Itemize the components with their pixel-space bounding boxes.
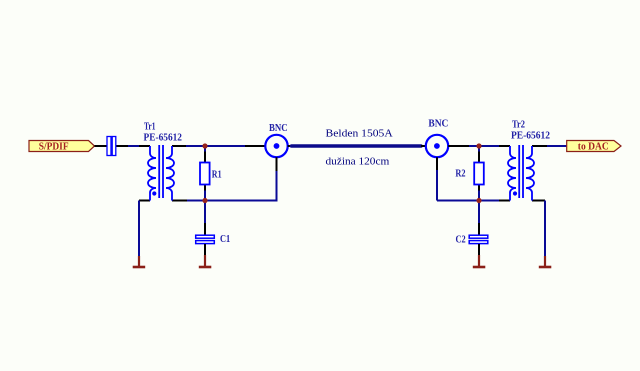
capacitor C2 pin top <box>478 223 480 235</box>
wire top rail left <box>186 145 245 147</box>
wire Tr2 to port <box>547 145 567 147</box>
resistor R2 <box>474 163 484 185</box>
cable Belden 1505A <box>292 144 422 148</box>
BNC connector left <box>265 135 287 157</box>
node junction left bottom <box>202 198 207 203</box>
wire C1 top <box>204 201 206 224</box>
wire BNC right down <box>436 170 438 201</box>
BNC right right pin <box>448 145 469 147</box>
ground <box>473 255 486 267</box>
svg-text:C1: C1 <box>220 233 230 245</box>
ground <box>199 255 212 267</box>
svg-text:PE-65612: PE-65612 <box>511 130 550 142</box>
node junction right bottom <box>476 198 481 203</box>
node junction right top <box>476 143 481 148</box>
BNC connector right left pin <box>421 145 426 147</box>
resistor R2 pin bottom <box>478 185 480 191</box>
transformer Tr1 pin top-right <box>172 145 186 147</box>
transformer Tr2 pin bottom-left <box>499 200 510 202</box>
svg-text:Belden 1505A: Belden 1505A <box>326 127 393 139</box>
svg-text:S/PDIF: S/PDIF <box>39 142 69 153</box>
node junction left top <box>202 143 207 148</box>
transformer Tr1 pin bottom-left <box>139 200 150 202</box>
wire C2 top <box>478 201 480 224</box>
wire R2 top stub <box>478 146 480 152</box>
capacitor C1 pin bottom <box>204 244 206 256</box>
svg-text:BNC: BNC <box>428 118 448 130</box>
resistor R1 pin top <box>204 152 206 163</box>
transformer Tr2 pin top-left <box>499 145 510 147</box>
wire Tr2 ground drop <box>544 201 546 257</box>
capacitor C1 pin top <box>204 223 206 235</box>
port S/PDIF <box>29 141 95 153</box>
ground <box>539 256 552 267</box>
transformer Tr1 polarity dot <box>152 191 156 195</box>
svg-text:Tr1: Tr1 <box>144 120 156 132</box>
transformer Tr1 core <box>158 145 160 198</box>
transformer Tr2 pin bottom-right <box>532 200 545 202</box>
port to DAC <box>567 141 621 153</box>
svg-text:dužina 120cm: dužina 120cm <box>326 156 390 168</box>
wire <box>128 145 140 147</box>
wire R1 bottom stub <box>204 191 206 201</box>
transformer Tr2 pin top-right <box>532 145 547 147</box>
wire R1 top stub <box>204 146 206 152</box>
svg-text:PE-65612: PE-65612 <box>144 132 183 144</box>
ground <box>133 256 146 267</box>
svg-text:R1: R1 <box>212 168 222 180</box>
capacitor C-in pin right <box>116 145 128 147</box>
resistor R2 pin top <box>478 152 480 163</box>
transformer Tr2 polarity dot <box>513 191 517 195</box>
BNC connector left pin <box>245 145 265 147</box>
capacitor C2 pin bottom <box>478 244 480 256</box>
resistor R1 pin bottom <box>204 185 206 191</box>
wire bottom rail right <box>437 200 499 202</box>
wire R2 bottom stub <box>478 191 480 201</box>
resistor R1 <box>200 163 210 185</box>
capacitor C1 <box>196 235 215 243</box>
capacitor C-in <box>107 137 116 156</box>
BNC right bottom pin <box>436 157 438 170</box>
wire Tr1 ground drop <box>138 201 140 257</box>
capacitor C-in pin left <box>95 145 108 147</box>
transformer Tr1 pin top-left <box>139 145 150 147</box>
BNC connector right <box>426 135 448 157</box>
wire bottom rail left <box>187 170 277 201</box>
capacitor C2 <box>469 235 488 243</box>
svg-text:to DAC: to DAC <box>578 142 609 153</box>
svg-text:C2: C2 <box>456 233 466 245</box>
transformer Tr1 primary winding <box>148 146 156 201</box>
transformer Tr2 core <box>518 145 520 198</box>
BNC left right pin <box>288 145 292 147</box>
transformer Tr2 primary winding <box>508 146 516 201</box>
wire BNC right to junction <box>469 145 499 147</box>
BNC left bottom pin <box>276 157 278 171</box>
transformer Tr1 secondary winding <box>166 146 174 201</box>
svg-text:BNC: BNC <box>269 122 288 134</box>
transformer Tr2 secondary winding <box>526 146 534 201</box>
svg-text:R2: R2 <box>455 167 465 179</box>
transformer Tr1 pin bottom-right <box>172 200 187 202</box>
